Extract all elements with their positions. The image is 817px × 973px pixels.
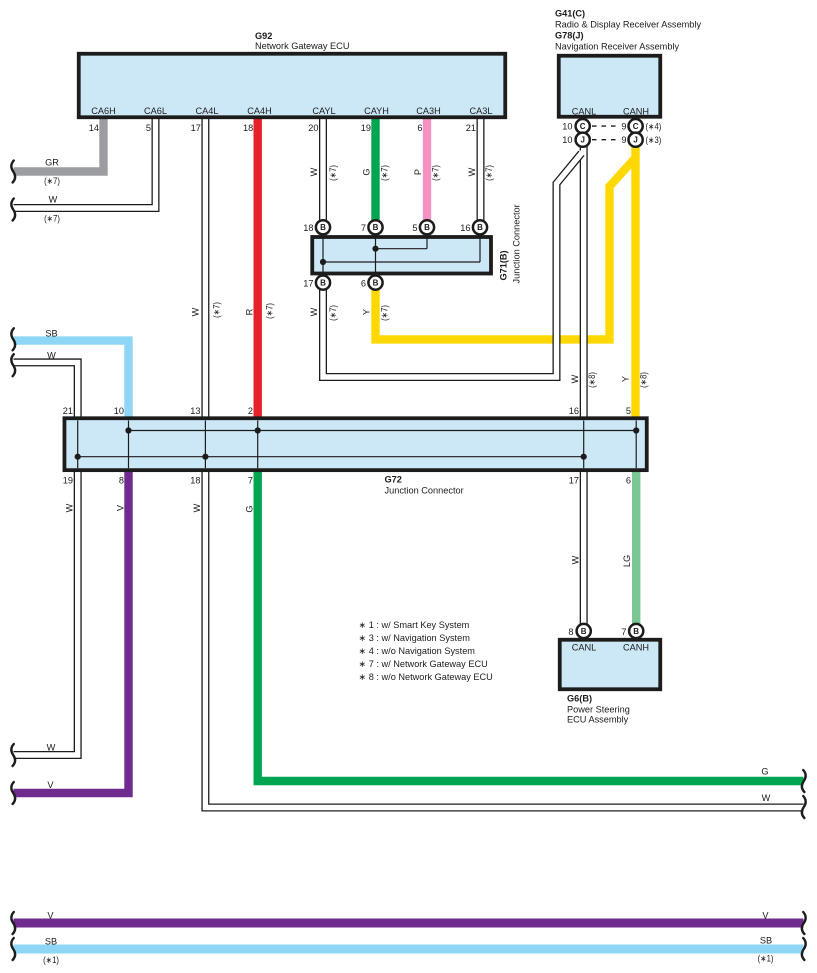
wire LG from G72 pin6 to G6 pin7 bbox=[632, 470, 640, 626]
svg-text:18: 18 bbox=[243, 123, 253, 133]
junction connector G72 box bbox=[64, 418, 646, 470]
svg-text:CA3L: CA3L bbox=[470, 106, 493, 116]
wire W from G92 CA4L pin17 to G72 pin13 bbox=[201, 117, 209, 418]
junction connector G71(B) box bbox=[312, 237, 491, 274]
svg-text:G92: G92 bbox=[255, 31, 272, 41]
svg-text:(∗7): (∗7) bbox=[265, 303, 275, 319]
dashed link J row bbox=[592, 139, 620, 141]
page connector squiggle SB left bbox=[11, 328, 15, 350]
pin circle B8 of G6 bbox=[577, 624, 591, 638]
wire Y from G71 pin6 to CANH J circle bbox=[376, 157, 637, 339]
wire W from G92 CA6L pin5 to left edge bbox=[14, 117, 156, 208]
svg-text:CA4H: CA4H bbox=[247, 106, 272, 116]
pin circle B17 of G71 bbox=[316, 276, 330, 290]
wire G from G72 pin7 to right edge bbox=[258, 470, 804, 781]
svg-text:R: R bbox=[245, 308, 255, 315]
svg-text:B: B bbox=[373, 279, 379, 288]
wire W from left edge to G72 pin21 bbox=[14, 362, 78, 418]
svg-text:6: 6 bbox=[361, 279, 366, 289]
svg-text:B: B bbox=[633, 627, 639, 636]
svg-text:(∗7): (∗7) bbox=[44, 214, 60, 224]
svg-text:(∗3): (∗3) bbox=[646, 135, 662, 145]
svg-text:GR: GR bbox=[45, 158, 59, 168]
svg-text:B: B bbox=[373, 223, 379, 232]
svg-text:W: W bbox=[191, 307, 201, 316]
svg-text:6: 6 bbox=[626, 476, 631, 486]
wire R from G92 CA4H pin18 to G72 pin2 bbox=[254, 117, 262, 418]
svg-text:B: B bbox=[424, 223, 430, 232]
G72 internal column 5-6 bbox=[635, 421, 637, 469]
page connector squiggle SB bus left bbox=[11, 938, 15, 960]
svg-text:∗ 4 : w/o Navigation System: ∗ 4 : w/o Navigation System bbox=[359, 646, 476, 656]
svg-text:Y: Y bbox=[362, 309, 372, 315]
G72 internal top bus bbox=[129, 430, 637, 432]
svg-text:G: G bbox=[362, 168, 372, 175]
svg-text:W: W bbox=[467, 167, 477, 176]
svg-text:G41(C): G41(C) bbox=[555, 8, 585, 18]
svg-text:CANH: CANH bbox=[623, 107, 649, 117]
pin circle B5 of G71 bbox=[420, 220, 434, 234]
page connector squiggle W bottom left bbox=[11, 744, 15, 766]
svg-text:∗ 1 : w/ Smart Key System: ∗ 1 : w/ Smart Key System bbox=[359, 620, 470, 630]
page connector squiggle W2 left bbox=[11, 354, 15, 376]
svg-text:Y: Y bbox=[621, 376, 631, 382]
svg-text:(∗7): (∗7) bbox=[212, 302, 222, 318]
svg-text:17: 17 bbox=[569, 476, 579, 486]
svg-text:V: V bbox=[47, 780, 54, 790]
svg-text:SB: SB bbox=[760, 936, 772, 946]
svg-text:(∗1): (∗1) bbox=[758, 954, 774, 964]
wire SB horizontal bus at bottom bbox=[14, 945, 804, 954]
wire GR from G92 CA6H pin14 to left edge bbox=[14, 117, 104, 172]
svg-text:17: 17 bbox=[303, 279, 313, 289]
svg-text:(∗4): (∗4) bbox=[646, 122, 662, 132]
junction dot G72 pin19 bbox=[75, 454, 81, 460]
svg-text:G72: G72 bbox=[385, 475, 402, 485]
G71 internal stub pin7-6 bbox=[375, 237, 377, 274]
pin circle B7 of G71 bbox=[368, 220, 382, 234]
junction dot G72 pin18 bbox=[202, 454, 208, 460]
svg-text:W: W bbox=[49, 195, 58, 205]
pin circle B7 of G6 bbox=[629, 624, 643, 638]
G71 internal stub pin18-17 bbox=[322, 237, 324, 274]
svg-text:20: 20 bbox=[308, 123, 318, 133]
svg-text:8: 8 bbox=[119, 476, 124, 486]
svg-text:B: B bbox=[477, 223, 483, 232]
G71 internal bus pin18 to pin16 bbox=[323, 261, 480, 263]
svg-text:(∗7): (∗7) bbox=[484, 165, 494, 181]
junction dot G71 pin7 bbox=[372, 246, 378, 252]
svg-text:J: J bbox=[580, 136, 584, 145]
wire V from G72 pin8 to left edge bbox=[14, 470, 129, 793]
svg-text:LG: LG bbox=[622, 555, 632, 567]
svg-text:21: 21 bbox=[63, 406, 73, 416]
svg-text:J: J bbox=[633, 136, 637, 145]
svg-text:10: 10 bbox=[562, 135, 572, 145]
svg-text:CANH: CANH bbox=[623, 642, 649, 652]
wire W from G72 pin17 to G6 pin8 bbox=[580, 470, 588, 626]
wire P from G92 CA3H pin6 to G71 pin5 bbox=[423, 117, 431, 222]
svg-text:7: 7 bbox=[361, 223, 366, 233]
svg-text:V: V bbox=[47, 911, 54, 921]
svg-text:(∗7): (∗7) bbox=[328, 165, 338, 181]
G72 internal column 13-18 bbox=[204, 421, 206, 469]
svg-text:(∗8): (∗8) bbox=[587, 372, 597, 388]
svg-text:CANL: CANL bbox=[572, 642, 597, 652]
svg-text:21: 21 bbox=[466, 123, 476, 133]
svg-text:ECU Assembly: ECU Assembly bbox=[567, 715, 629, 725]
svg-text:∗ 3 : w/ Navigation System: ∗ 3 : w/ Navigation System bbox=[359, 633, 471, 643]
pin circle J 10 of G78 bbox=[576, 133, 590, 147]
svg-text:W: W bbox=[192, 503, 202, 512]
svg-text:CAYL: CAYL bbox=[312, 106, 335, 116]
dashed link C row bbox=[592, 125, 620, 127]
svg-text:(∗7): (∗7) bbox=[380, 305, 390, 321]
svg-text:19: 19 bbox=[361, 123, 371, 133]
svg-text:18: 18 bbox=[190, 476, 200, 486]
wire W from CANL J circle to G72 pin16 bbox=[580, 144, 588, 418]
svg-text:B: B bbox=[320, 223, 326, 232]
ECU G41(C)/G78(J) receiver assembly box bbox=[559, 56, 661, 117]
svg-text:Junction Connector: Junction Connector bbox=[512, 204, 522, 283]
svg-text:CA4L: CA4L bbox=[196, 106, 219, 116]
G72 internal column 10-8 bbox=[128, 421, 130, 469]
svg-text:W: W bbox=[309, 307, 319, 316]
svg-text:CAYH: CAYH bbox=[364, 106, 389, 116]
G71 internal bus pin7 to pin5 bbox=[376, 248, 428, 250]
svg-text:7: 7 bbox=[621, 627, 626, 637]
svg-text:(∗7): (∗7) bbox=[431, 165, 441, 181]
junction dot G72 pin5 bbox=[633, 427, 639, 433]
svg-text:W: W bbox=[570, 374, 580, 383]
pin circle J 9 of G78 bbox=[629, 133, 643, 147]
G72 internal column 2-7 bbox=[257, 421, 259, 469]
svg-text:9: 9 bbox=[621, 122, 626, 132]
page connector squiggle GR left bbox=[11, 161, 15, 183]
pin circle B18 of G71 bbox=[316, 220, 330, 234]
page connector squiggle V bus right bbox=[802, 912, 806, 934]
svg-text:W: W bbox=[65, 503, 75, 512]
svg-text:V: V bbox=[762, 911, 769, 921]
svg-text:W: W bbox=[571, 555, 581, 564]
wire Y from CANH J circle to G72 pin5 bbox=[631, 145, 639, 418]
svg-text:G78(J): G78(J) bbox=[555, 30, 584, 40]
svg-text:Power Steering: Power Steering bbox=[567, 704, 630, 714]
svg-text:10: 10 bbox=[114, 406, 124, 416]
svg-text:G71(B): G71(B) bbox=[499, 250, 509, 280]
svg-text:W: W bbox=[762, 793, 771, 803]
G72 internal column 16-17 bbox=[583, 421, 585, 469]
pin circle B16 of G71 bbox=[473, 220, 487, 234]
svg-text:14: 14 bbox=[89, 123, 99, 133]
G71 internal stub pin5 bbox=[426, 237, 428, 249]
svg-text:16: 16 bbox=[569, 406, 579, 416]
wire W from G72 pin19 to left edge bbox=[14, 470, 78, 755]
page connector squiggle G right bbox=[802, 770, 806, 792]
svg-text:CA6L: CA6L bbox=[144, 106, 167, 116]
svg-text:2: 2 bbox=[248, 406, 253, 416]
svg-text:13: 13 bbox=[190, 406, 200, 416]
page connector squiggle V bus left bbox=[11, 912, 15, 934]
pin circle C 9 of G41 bbox=[629, 119, 643, 133]
svg-text:P: P bbox=[413, 169, 423, 175]
svg-text:(∗1): (∗1) bbox=[43, 955, 59, 965]
wire V horizontal bus at bottom bbox=[14, 919, 804, 928]
svg-text:6: 6 bbox=[417, 123, 422, 133]
svg-text:(∗7): (∗7) bbox=[380, 165, 390, 181]
wire W from G92 CAYL pin20 to G71 pin18 bbox=[319, 117, 327, 222]
svg-text:B: B bbox=[320, 279, 326, 288]
pin circle C 10 of G41 bbox=[576, 119, 590, 133]
junction dot G71 pin18 bbox=[320, 259, 326, 265]
svg-text:Junction Connector: Junction Connector bbox=[385, 485, 464, 495]
wire W from G71 pin17 to CANL J circle bbox=[323, 153, 582, 377]
svg-text:5: 5 bbox=[412, 223, 417, 233]
svg-text:CANL: CANL bbox=[572, 107, 597, 117]
svg-text:17: 17 bbox=[191, 123, 201, 133]
wire W from G92 CA3L pin21 to G71 pin16 bbox=[477, 117, 485, 222]
svg-text:W: W bbox=[47, 351, 56, 361]
G72 internal column 21-19 bbox=[77, 421, 79, 469]
svg-text:CA3H: CA3H bbox=[416, 106, 441, 116]
svg-text:(∗7): (∗7) bbox=[44, 176, 60, 186]
svg-text:G: G bbox=[761, 767, 768, 777]
svg-text:V: V bbox=[115, 504, 125, 511]
svg-text:(∗7): (∗7) bbox=[328, 305, 338, 321]
svg-text:(∗8): (∗8) bbox=[639, 372, 649, 388]
ECU G6(B) Power Steering box bbox=[560, 640, 661, 690]
page connector squiggle SB bus right bbox=[802, 938, 806, 960]
svg-text:7: 7 bbox=[248, 476, 253, 486]
wire SB from left edge to G72 pin10 bbox=[14, 341, 129, 418]
svg-text:9: 9 bbox=[621, 135, 626, 145]
svg-text:5: 5 bbox=[626, 406, 631, 416]
svg-text:C: C bbox=[633, 122, 639, 131]
ECU G92 Network Gateway ECU box bbox=[79, 54, 506, 118]
G72 internal bottom bus bbox=[78, 456, 584, 458]
svg-text:B: B bbox=[581, 627, 587, 636]
svg-text:G: G bbox=[245, 505, 255, 512]
page connector squiggle W right bbox=[802, 796, 806, 818]
svg-text:W: W bbox=[47, 743, 56, 753]
svg-text:Network Gateway ECU: Network Gateway ECU bbox=[255, 41, 349, 51]
page connector squiggle W left bbox=[11, 199, 15, 221]
svg-text:5: 5 bbox=[146, 123, 151, 133]
svg-text:G6(B): G6(B) bbox=[567, 694, 592, 704]
svg-text:19: 19 bbox=[63, 476, 73, 486]
pin circle B6 of G71 bbox=[368, 276, 382, 290]
svg-text:∗ 8 : w/o Network Gateway ECU: ∗ 8 : w/o Network Gateway ECU bbox=[359, 672, 493, 682]
svg-text:SB: SB bbox=[45, 329, 57, 339]
wire W from G72 pin18 to right edge bbox=[205, 470, 803, 808]
svg-text:8: 8 bbox=[568, 627, 573, 637]
G71 internal stub pin16 bbox=[479, 237, 481, 262]
svg-text:Navigation Receiver Assembly: Navigation Receiver Assembly bbox=[555, 42, 679, 52]
junction dot G72 pin2 bbox=[255, 427, 261, 433]
svg-text:18: 18 bbox=[303, 223, 313, 233]
svg-text:C: C bbox=[580, 122, 586, 131]
svg-text:16: 16 bbox=[460, 223, 470, 233]
svg-text:W: W bbox=[309, 167, 319, 176]
wire G from G92 CAYH pin19 to G71 pin7 bbox=[371, 117, 379, 222]
svg-text:CA6H: CA6H bbox=[91, 106, 116, 116]
svg-text:Radio & Display Receiver Assem: Radio & Display Receiver Assembly bbox=[555, 20, 701, 30]
page connector squiggle V bottom left bbox=[11, 782, 15, 804]
junction dot G72 pin17 bbox=[581, 454, 587, 460]
svg-text:SB: SB bbox=[45, 937, 57, 947]
svg-text:10: 10 bbox=[562, 122, 572, 132]
junction dot G72 pin10 bbox=[125, 427, 131, 433]
svg-text:∗ 7 : w/ Network Gateway ECU: ∗ 7 : w/ Network Gateway ECU bbox=[359, 659, 488, 669]
